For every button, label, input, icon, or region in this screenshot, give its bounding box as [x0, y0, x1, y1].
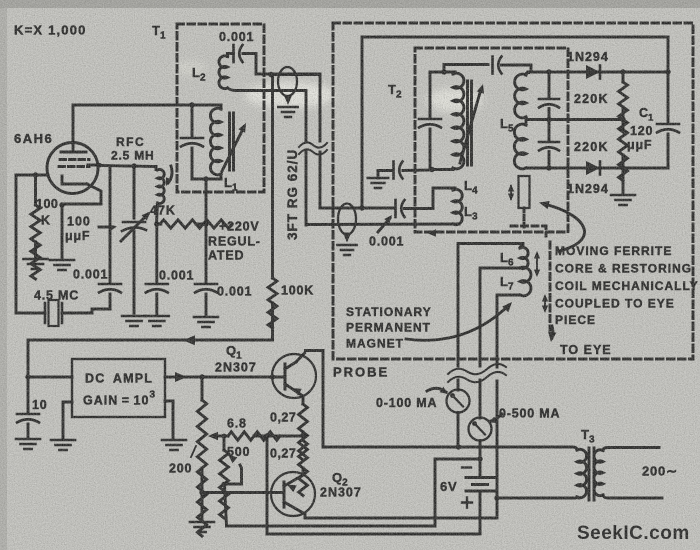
meter 0-100MA M1: [447, 390, 470, 413]
wire L2 shield: [228, 88, 307, 91]
wire amp output: [165, 376, 285, 379]
to-eye arrow: [552, 326, 553, 338]
probe wire B: [479, 310, 482, 418]
capacitor bypass CA: [548, 72, 551, 97]
wire C6-L3: [405, 188, 456, 209]
wire Q2 collector run: [306, 498, 498, 518]
node det input: [359, 205, 364, 210]
crystal 4.5MC Y1: [45, 303, 62, 323]
wire battery plus: [267, 436, 480, 534]
wire tank bottom: [192, 178, 221, 181]
T2 tuning cap stem2: [429, 129, 432, 170]
wire M1-rail: [457, 413, 460, 448]
wire cathode exit: [62, 184, 101, 204]
capacitor 0.001 C2: [99, 283, 121, 286]
wire coax center upper: [271, 73, 320, 76]
magnet arrow: [406, 305, 509, 340]
node 500 bottom: [221, 482, 226, 487]
node m1: [546, 117, 551, 122]
M1 label arrow: [427, 388, 446, 392]
ground amp left: [51, 440, 75, 450]
probe break squiggle: [448, 364, 506, 382]
node trimmer top: [131, 163, 136, 168]
resistor 220K R5: [619, 120, 628, 181]
wire M2-battery: [479, 441, 482, 460]
wire coax shield drop: [305, 91, 308, 226]
ground C5: [194, 317, 218, 327]
T3 core lines: [589, 448, 594, 500]
node b2: [620, 165, 625, 170]
assembly dashed box: [333, 23, 693, 359]
resistor 100K R3 line: [271, 75, 274, 340]
tank cap stem2: [191, 148, 194, 179]
coax break squiggle: [299, 142, 327, 154]
wire L7 drop: [496, 347, 499, 498]
wire 100K leads: [34, 175, 37, 259]
wire 200-ground: [201, 493, 204, 522]
node tank top: [189, 102, 194, 107]
DC AMPL box: [72, 359, 165, 417]
Q2 base bar: [283, 482, 286, 507]
meter 0-500MA M2: [469, 418, 492, 441]
transistor Q1 2N307: [272, 354, 316, 398]
inductor L7: [520, 267, 531, 296]
wire L7 bottom: [497, 295, 520, 347]
node feedback-base: [270, 374, 275, 379]
diode 1N294 D1: [586, 65, 600, 79]
ground 100K: [24, 259, 48, 269]
wire 47K leads: [157, 223, 206, 226]
tank cap stem: [191, 105, 194, 136]
node amp input: [25, 374, 30, 379]
ground cathode: [50, 260, 74, 270]
T2 tuning capacitor: [419, 118, 441, 121]
T2 box edge arrow: [427, 229, 436, 237]
T2 core lines: [468, 81, 472, 165]
amp pin left: [63, 402, 72, 438]
wire grid bus: [99, 166, 156, 167]
wire battery minus link: [227, 459, 481, 526]
capacitor T2 ext: [392, 162, 395, 179]
wire tank top: [192, 104, 221, 107]
wire T2 top: [430, 71, 455, 74]
node coax center: [268, 72, 273, 77]
node M1 rail: [456, 444, 461, 449]
wire T2 bottom: [432, 168, 453, 171]
node RFC bottom: [154, 221, 159, 226]
T2 tuning arrow: [460, 89, 481, 163]
battery minus sign: [462, 466, 471, 468]
T2 dashed box: [415, 48, 568, 232]
node +220V: [203, 221, 208, 226]
core motion arrows: [508, 184, 514, 192]
capacitor 10 C8: [27, 377, 30, 412]
J2 ground arrow: [343, 233, 351, 243]
inductor L1: [210, 105, 221, 179]
inductor L5 bottom: [514, 124, 526, 169]
inductor RFC L8: [156, 167, 164, 225]
resistor 220K R4: [619, 72, 628, 132]
label arrow 100uuF: [99, 226, 113, 229]
moving-core arrow: [544, 204, 584, 251]
wire det row bot: [526, 167, 668, 170]
T2 box bottom notch: [511, 226, 546, 236]
resistor 100K R3: [268, 278, 277, 328]
amp pin right: [165, 401, 173, 438]
inductor L4: [453, 72, 464, 169]
node T2 bottom: [429, 167, 434, 172]
capacitor 0.001 C7: [491, 57, 494, 74]
resistor 200 R8: [197, 377, 206, 536]
capacitor 0.001 C1a: [232, 45, 235, 62]
wire det-cap: [362, 207, 393, 210]
C6 label arrow: [378, 218, 390, 232]
node cathode corner: [59, 202, 64, 207]
wire Q2 base: [202, 491, 284, 494]
coax connector J2: [338, 204, 356, 235]
inductor L3: [453, 188, 462, 225]
ground J1: [278, 107, 297, 117]
feedback arrow: [183, 335, 195, 345]
battery 6V BT1: [479, 459, 482, 476]
wire R6 leads: [302, 432, 305, 435]
wire cathode down: [61, 205, 64, 259]
node 100K top: [33, 172, 38, 177]
resistor 0.27 R6: [299, 404, 308, 460]
tube 6AH6 envelope U1: [47, 143, 98, 194]
T2 tuning cap stem: [429, 72, 432, 117]
wire T3 primary bottom: [497, 497, 575, 500]
Q1 emitter lead: [285, 384, 303, 404]
wire C5 bottom: [205, 294, 208, 316]
wire feedback: [28, 340, 273, 377]
wire plate top: [73, 105, 192, 143]
inductor L5 top: [515, 74, 526, 118]
transistor Q2 2N307: [271, 472, 315, 516]
wire det row mid: [526, 118, 623, 121]
ground amp right: [162, 440, 186, 450]
wire grid-left: [16, 174, 48, 177]
arrow RFC: [168, 166, 172, 183]
node T3 bottom: [494, 495, 499, 500]
capacitor bypass CB: [548, 120, 551, 141]
wire coax center drop: [319, 75, 322, 208]
capacitor 0.001 C6: [394, 200, 397, 217]
node emitter mid: [300, 433, 305, 438]
Q2 emitter lead: [284, 475, 303, 486]
ground 220K: [622, 168, 625, 194]
node 200 bottom: [199, 490, 204, 495]
wire T2top-cap: [444, 65, 488, 73]
wire top rail: [362, 37, 668, 208]
node b1: [546, 165, 551, 170]
resistor 500 R10: [220, 436, 229, 518]
output arrow: [175, 372, 187, 382]
L1 tuning arrow: [222, 127, 244, 171]
wire coax center lower: [320, 207, 362, 210]
transformer T3 primary: [572, 447, 587, 498]
resistor 0.27 R7: [299, 436, 308, 496]
resistor 47K R2: [160, 220, 232, 228]
wire L6L7 mid: [480, 268, 520, 310]
wire L2top-cap: [228, 52, 234, 55]
wire cap-T2: [403, 169, 432, 172]
wire L4 bottom: [452, 167, 455, 170]
probe wire A: [457, 342, 460, 390]
wire C2 bottom: [109, 294, 112, 309]
trimmer 100uuF C3 plates: [123, 221, 145, 224]
ground J2: [337, 245, 356, 255]
capacitor C1 120uuF: [667, 72, 670, 122]
wiper arrow 200: [216, 435, 228, 438]
ground C8: [16, 439, 40, 449]
node r2: [620, 69, 625, 74]
wire cap-L5: [502, 65, 532, 72]
ferrite core: [519, 176, 530, 208]
resistor 6.8 R9: [228, 432, 280, 440]
wire left rail: [16, 175, 45, 313]
node r1: [546, 69, 551, 74]
node r3: [665, 69, 670, 74]
ground C4: [145, 316, 169, 326]
wire collector rail: [306, 351, 573, 448]
transformer T3 secondary: [594, 448, 662, 499]
wire Q1 collector diag: [296, 353, 305, 362]
coupling arrows A: [534, 251, 540, 259]
coupling dashed line: [549, 242, 552, 330]
wire tank-220 drop: [205, 179, 208, 282]
tube grid rows: [59, 160, 89, 167]
capacitor 0.001 C5: [195, 283, 217, 286]
ground trimmer: [122, 316, 146, 326]
inductor L2: [219, 54, 228, 89]
Q1 base bar: [284, 364, 287, 389]
diode 1N294 D2: [586, 161, 600, 175]
node battery minus: [477, 456, 482, 461]
wire C4 bottom: [155, 294, 158, 315]
wire amp input: [28, 376, 72, 379]
capacitor 0.001 C4: [146, 283, 168, 286]
ground 200: [190, 522, 214, 532]
node T2 top: [441, 69, 446, 74]
wire 6.8-emitter: [254, 435, 303, 438]
node 200 top: [199, 374, 204, 379]
core stub dashed: [523, 208, 526, 230]
tube plate: [61, 145, 86, 152]
wire L6 top: [458, 244, 523, 343]
coupling arrows B: [542, 294, 548, 302]
wire coax shield lower: [306, 223, 459, 226]
node grid exit: [97, 163, 102, 168]
M2 label arrow: [491, 414, 502, 421]
wire 500-bottom-drop: [225, 485, 227, 527]
capacitor 0.001 C4 stem: [155, 224, 158, 282]
J1 ground arrow: [284, 95, 292, 105]
node m2: [620, 117, 625, 122]
node tank bottom: [203, 176, 208, 181]
node 500 top: [222, 434, 227, 439]
wire cap-coax: [243, 54, 320, 75]
battery plus sign: [462, 498, 472, 508]
ground T2 cap: [368, 178, 388, 188]
wire crystal right: [62, 309, 110, 313]
Q2 collector lead: [284, 502, 305, 518]
wire L5 mid: [525, 117, 528, 125]
tube cathode: [62, 176, 87, 184]
coax connector J1: [278, 67, 297, 96]
L1 core lines: [230, 113, 234, 170]
T1 dashed box: [177, 24, 264, 192]
wire gnd-cap: [378, 169, 392, 172]
200 label tick: [191, 446, 196, 457]
tube grid lead: [88, 164, 100, 167]
wire det row top: [528, 71, 668, 74]
inductor L5 curl: [526, 73, 529, 76]
wiper 500: [225, 465, 242, 484]
trimmer 100uuF C3 line: [133, 166, 136, 313]
capacitor 0.001 C2 stem: [109, 166, 112, 282]
tank capacitor: [181, 137, 203, 140]
node bat-plus tap: [264, 433, 269, 438]
Q1 collector lead: [285, 362, 296, 369]
inductor L6: [520, 246, 528, 269]
resistor 100K grid: [31, 205, 40, 279]
trimmer C3 arrow: [121, 214, 148, 241]
